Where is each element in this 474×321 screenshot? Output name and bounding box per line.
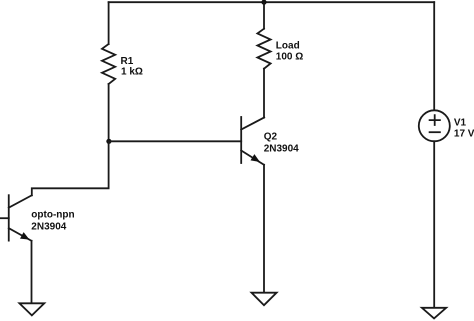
svg-text:opto-npn: opto-npn	[31, 209, 74, 220]
node junction dot R1/base	[106, 139, 111, 144]
ground right	[422, 308, 446, 319]
wire opto emitter lead down	[31, 241, 33, 303]
wire top rail from R1 to V1	[109, 1, 435, 3]
wire V1 top lead	[433, 2, 435, 110]
wire Q2 emitter lead down	[263, 165, 265, 293]
ground middle	[252, 293, 277, 306]
transistor opto-npn	[9, 195, 32, 241]
transistor Q2	[241, 117, 264, 165]
wire R1 bottom lead down to base node	[108, 84, 110, 141]
wire opto base to left edge	[0, 217, 9, 219]
svg-text:2N3904: 2N3904	[31, 222, 66, 233]
wire Load top lead	[263, 2, 265, 29]
svg-text:1 kΩ: 1 kΩ	[121, 67, 143, 78]
svg-text:100 Ω: 100 Ω	[276, 52, 303, 63]
ground left	[19, 303, 44, 315]
wire node down then left to opto collector	[32, 141, 109, 195]
svg-text:Load: Load	[276, 41, 300, 52]
resistor R1	[102, 44, 115, 84]
wire R1 top lead	[108, 2, 110, 44]
resistor Load	[257, 29, 270, 69]
wire base of Q2 from node	[109, 140, 242, 142]
svg-text:Q2: Q2	[264, 132, 278, 143]
node top junction dot at load branch	[261, 0, 266, 5]
voltage source V1	[419, 110, 450, 141]
svg-text:2N3904: 2N3904	[264, 143, 299, 154]
svg-text:17 V: 17 V	[454, 128, 474, 139]
wire V1 bottom lead	[433, 141, 435, 307]
svg-text:V1: V1	[454, 117, 467, 128]
wire Load bottom lead to Q2 collector	[263, 69, 265, 118]
svg-text:R1: R1	[121, 56, 134, 67]
